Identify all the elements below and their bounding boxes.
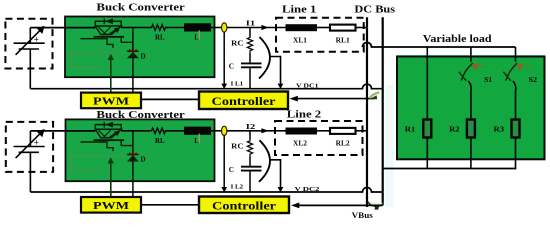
current arrow I2 [261, 128, 268, 133]
arrow: V tap 2 down [278, 187, 284, 192]
node (yellow ellipse) [222, 23, 227, 32]
svg-text:Variable load: Variable load [423, 34, 492, 45]
wire: RC to C [249, 53, 251, 64]
resistor R1 (box) [423, 120, 431, 138]
wire: load return stub R1 [426, 159, 428, 168]
wire: C2 to return rail 2 [249, 171, 251, 192]
wire: S2 to R3 [513, 81, 516, 118]
source V1 dashed box [5, 19, 52, 69]
wire: RL to L [167, 27, 184, 29]
svg-text:V DC1: V DC1 [296, 82, 319, 89]
wire: rail IGBT to RL [121, 27, 150, 29]
wire: RL2 to DC bus [356, 130, 368, 132]
wire: load return stub R3 [515, 159, 517, 168]
source V2 dashed box [6, 122, 53, 172]
svg-text:Buck Converter: Buck Converter [96, 3, 185, 14]
converter subsystem box 1 (green) [65, 17, 215, 78]
wire: load return stub R2 [470, 159, 472, 168]
aqua stripe above load box [397, 55, 545, 57]
wire: arc tap connector [270, 57, 281, 85]
variable DC source V1 [14, 28, 45, 89]
wire: C to return rail [249, 67, 251, 88]
svg-text:R1: R1 [405, 126, 416, 134]
svg-text:I2: I2 [246, 122, 256, 131]
svg-text:PWM: PWM [93, 200, 130, 212]
svg-text:S1: S1 [484, 77, 493, 84]
VBus tap triangle [375, 206, 379, 210]
resistor RL2 (box) [330, 128, 356, 134]
resistor R3 (box) [512, 120, 520, 138]
voltage measurement arc (V DC2) [259, 140, 270, 182]
IGBT U1 internal arrow [110, 28, 119, 34]
svg-text:I L1: I L1 [231, 81, 244, 87]
load subsystem box (green) [397, 57, 545, 160]
switch S2 arrow (brown) [516, 63, 525, 71]
svg-text:PWM: PWM [93, 96, 130, 108]
wire: PWM gate drive 1 [110, 58, 112, 93]
wire: VBus feedback line [299, 204, 383, 206]
svg-text:Line 1: Line 1 [282, 5, 316, 16]
inductor XL1 (solid block) [286, 24, 318, 31]
IGBT U2 frame [95, 125, 121, 131]
svg-text:XL2: XL2 [293, 140, 308, 148]
svg-text:D: D [141, 52, 146, 60]
wire: drop to S2 [515, 47, 517, 62]
wire: RL2 to L2 [167, 130, 184, 132]
faint artifact lines inside converter 1 [71, 53, 125, 68]
wire: source V2 to IGBT collector [30, 130, 95, 132]
wire: source V1 to IGBT collector [30, 27, 95, 29]
arrow: V tap down [278, 84, 284, 89]
diode D2 red mark [129, 153, 136, 156]
arrow: I L2 down [221, 187, 227, 192]
wire: L2 to node 2 [211, 130, 222, 132]
svg-text:D: D [141, 156, 146, 164]
svg-text:Line 2: Line 2 [287, 110, 321, 121]
source V2 arrow head [37, 129, 45, 137]
IGBT U1 frame [95, 21, 121, 27]
diode D2 (freewheeling) [127, 154, 138, 156]
converter subsystem box 2 (green) [66, 119, 215, 181]
bus line 1 (positive) [366, 17, 368, 207]
resistor RL (zigzag, lower) [150, 128, 167, 134]
faint artifact lines inside converter 2 [71, 156, 125, 171]
svg-text:RC: RC [231, 143, 243, 151]
wire: node to Line 1 [227, 27, 286, 29]
wire: RL1 to DC bus [356, 27, 368, 29]
svg-text:DC Bus: DC Bus [354, 4, 395, 15]
resistor RL1 (box) [330, 25, 356, 31]
svg-text:RC: RC [231, 39, 243, 47]
wire: arc 2 tap connector [270, 160, 281, 188]
IGBT U2 emitter bar [94, 139, 125, 141]
wire: load return line to bus line 2 [383, 168, 517, 170]
svg-text:R2: R2 [449, 126, 460, 134]
IGBT U1 emitter bar [94, 36, 125, 38]
resistor RC2 (zigzag vertical) [247, 140, 252, 156]
svg-text:Controller: Controller [212, 96, 276, 108]
wire: drop to R1 branch [426, 47, 428, 58]
svg-text:XL1: XL1 [293, 36, 308, 44]
svg-text:RL1: RL1 [336, 36, 351, 44]
node 2 (yellow ellipse) [222, 126, 227, 135]
capacitor C plates [241, 62, 262, 64]
arrow: VBus into controller 2 [291, 203, 299, 209]
wire: R1 branch upper [426, 58, 428, 119]
svg-text:C: C [229, 63, 234, 71]
current arrow I1 [261, 25, 268, 30]
svg-text:S2: S2 [529, 77, 538, 84]
IGBT U2 internal arrow [110, 132, 119, 138]
wire: RC2 branch drop [249, 131, 251, 140]
IGBT U1 body (trapezoid) [95, 26, 121, 35]
wire: R2 branch lower [470, 138, 472, 160]
resistor R2 (box) [467, 120, 475, 138]
arrow: V DC1 into controller [290, 96, 298, 102]
switch S1 arrow (brown) [472, 63, 481, 71]
switch S2 cross stroke [503, 72, 511, 81]
svg-text:L: L [194, 137, 199, 145]
IGBT U1 gate lead [81, 39, 114, 48]
svg-text:L: L [194, 34, 199, 42]
Line 1 dashed box [276, 18, 364, 52]
VBus measurement blob (light green) [368, 202, 384, 207]
svg-text:R3: R3 [494, 126, 505, 134]
wire: L to node [211, 27, 222, 29]
wire: I L2 measurement drop [223, 135, 225, 188]
svg-text:I L2: I L2 [231, 185, 244, 191]
load feed wire with hop over bus line 1 [363, 43, 516, 48]
svg-text:I1: I1 [246, 19, 256, 28]
svg-text:RL: RL [155, 34, 165, 42]
switch S2 blade [506, 63, 517, 80]
wire: rail IGBT2 to RL2 [121, 130, 150, 132]
svg-text:RL: RL [155, 137, 165, 145]
resistor RL (zigzag) [150, 25, 167, 31]
voltage measurement arc (V DC1) [259, 37, 270, 79]
svg-text:C: C [229, 166, 234, 174]
svg-text:Controller: Controller [212, 200, 276, 212]
bus line 2 (return) [382, 17, 384, 205]
inductor L (solid block) [184, 23, 211, 31]
switch S1 blade [461, 63, 472, 80]
inductor L tan artifact (lower) [198, 134, 200, 144]
switch S1 cross stroke [459, 72, 467, 81]
svg-text:VBus: VBus [352, 211, 373, 220]
wire: controller 1 to PWM 1 [141, 98, 199, 100]
IGBT U2 body (trapezoid) [95, 129, 121, 138]
wire: PWM2 gate drive 1 [110, 161, 112, 197]
Line 2 dashed box [275, 121, 363, 155]
diode D (freewheeling) [127, 50, 138, 52]
wire: V DC1 feedback [297, 98, 375, 100]
source V1 arrow head [37, 26, 45, 34]
resistor RC (zigzag vertical) [247, 37, 252, 53]
wire: vertical diode branch / PWM line 2 [132, 28, 134, 93]
wire: R1 branch lower [426, 138, 428, 160]
capacitor C2 plates [241, 166, 262, 168]
svg-text:RL2: RL2 [336, 140, 351, 148]
diode D red mark [129, 49, 136, 52]
PWM box 1 [81, 93, 141, 109]
wire: drop to S1 [470, 47, 472, 62]
wire: XL1 to RL1 [317, 27, 330, 29]
arrow: I L1 down [221, 84, 227, 89]
Controller box 1 [199, 92, 288, 110]
inductor XL2 (solid block) [286, 128, 318, 135]
wire: RC branch drop [249, 28, 251, 37]
IGBT U2 anti-parallel diode [103, 122, 105, 128]
svg-text:V DC2: V DC2 [295, 186, 320, 193]
PWM box 2 [81, 197, 141, 213]
faint cyan band near bus [385, 85, 394, 207]
Controller box 2 [199, 197, 289, 214]
wire: RC2 to C2 [249, 156, 251, 167]
svg-text:+: + [34, 34, 39, 44]
IGBT U1 anti-parallel diode [103, 19, 105, 25]
wire: vertical diode branch / PWM2 line 2 [132, 131, 134, 197]
wire: S1 to R2 [468, 81, 471, 118]
arrow: gate drive up [108, 54, 114, 60]
wire: XL2 to RL2 [317, 130, 330, 132]
arrow: gate drive 2 up [108, 157, 114, 163]
variable DC source V2 [14, 131, 45, 192]
wire: R3 branch lower [515, 138, 517, 160]
wire: I L1 measurement drop [223, 32, 225, 85]
wire: IGBT 2 emitter to diode node [121, 141, 133, 146]
IGBT U2 gate lead [81, 142, 114, 151]
inductor L (solid block, lower) [184, 127, 211, 135]
measurement tap mark (green) at bus for V DC1 [370, 92, 380, 98]
return rail (upper) with hop over bus line 1 [30, 84, 382, 89]
inductor L tan artifact [198, 30, 200, 40]
wire: IGBT emitter to diode node [121, 38, 133, 43]
wire: controller 2 to PWM 2 [141, 204, 199, 206]
svg-text:+: + [34, 138, 39, 148]
wire: node 2 to Line 2 [227, 130, 286, 132]
return rail (lower) with hop over bus line 1 [30, 188, 382, 193]
